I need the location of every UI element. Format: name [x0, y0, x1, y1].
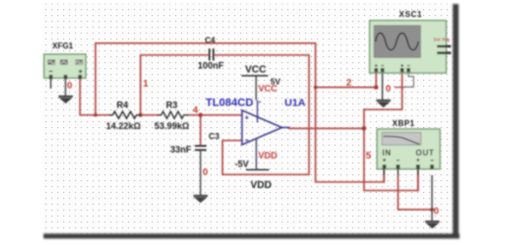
svg-text:R3: R3	[166, 100, 178, 110]
svg-text:14.22kΩ: 14.22kΩ	[106, 121, 141, 131]
svg-text:33nF: 33nF	[170, 144, 192, 154]
svg-text:C4: C4	[205, 36, 216, 45]
svg-text:1: 1	[143, 78, 149, 89]
svg-text:XFG1: XFG1	[52, 42, 73, 51]
svg-text:TL084CD: TL084CD	[206, 97, 254, 109]
svg-text:VCC: VCC	[258, 83, 278, 93]
svg-text:XSC1: XSC1	[399, 10, 422, 19]
svg-text:VCC: VCC	[245, 64, 266, 75]
svg-text:U1A: U1A	[285, 97, 306, 109]
svg-text:0: 0	[434, 206, 439, 217]
svg-text:100nF: 100nF	[198, 60, 225, 70]
svg-text:OUT: OUT	[416, 149, 435, 158]
svg-text:R4: R4	[117, 100, 129, 110]
svg-text:0: 0	[203, 167, 208, 178]
svg-text:5: 5	[366, 151, 372, 162]
svg-text:VDD: VDD	[258, 151, 278, 161]
svg-text:53.99kΩ: 53.99kΩ	[154, 121, 189, 131]
svg-text:-5V: -5V	[235, 159, 249, 169]
svg-text:XBP1: XBP1	[392, 119, 415, 128]
svg-text:Ext Trig: Ext Trig	[434, 37, 450, 42]
svg-text:C3: C3	[209, 131, 220, 141]
svg-text:0: 0	[67, 81, 72, 92]
svg-text:VDD: VDD	[250, 180, 271, 191]
svg-text:2: 2	[346, 78, 351, 89]
svg-text:0: 0	[386, 84, 391, 95]
svg-text:4: 4	[193, 105, 199, 116]
svg-text:IN: IN	[382, 149, 391, 158]
